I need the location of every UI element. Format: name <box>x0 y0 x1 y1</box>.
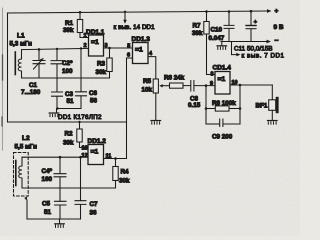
wire: tank2 top line <box>22 156 88 158</box>
svg-text:0.15: 0.15 <box>188 102 201 109</box>
svg-text:DD1.2: DD1.2 <box>88 138 107 145</box>
node: R2 tap on +V line <box>78 121 80 123</box>
resistor R1 <box>77 11 88 38</box>
potentiometer R5 <box>153 79 169 120</box>
resistor R4 <box>113 159 118 189</box>
svg-text:R4: R4 <box>121 169 130 176</box>
svg-text:+: + <box>254 19 257 25</box>
arrow to pin 7 DD1 <box>232 42 241 57</box>
svg-text:=1: =1 <box>91 39 99 46</box>
wire: DD1.2 out <box>104 158 127 160</box>
svg-text:13: 13 <box>82 145 88 151</box>
svg-text:L1: L1 <box>17 33 25 40</box>
svg-text:C5: C5 <box>42 201 51 208</box>
svg-text:R8 100k: R8 100k <box>212 100 236 107</box>
svg-text:DD1.3: DD1.3 <box>132 36 151 43</box>
svg-text:39k: 39k <box>63 140 74 147</box>
capacitor C8 <box>191 81 215 92</box>
wire: bottom ground line <box>27 218 81 220</box>
wire: +9V top rail <box>8 11 269 13</box>
svg-text:C4*: C4* <box>42 168 53 175</box>
inductor L1 core bar <box>14 52 16 75</box>
wire: tank1 top line <box>22 48 89 49</box>
svg-text:R6 24k: R6 24k <box>164 75 185 82</box>
svg-text:C10: C10 <box>211 27 223 34</box>
svg-text:R2: R2 <box>65 131 74 138</box>
svg-text:к выв. 7 DD1: к выв. 7 DD1 <box>242 52 285 59</box>
svg-text:C3: C3 <box>65 91 74 98</box>
svg-text:к выв. 14 DD1: к выв. 14 DD1 <box>114 24 156 31</box>
svg-text:39k: 39k <box>63 27 74 34</box>
ground under BF1 <box>268 121 278 125</box>
wire: +V sub-line to bottom circuit <box>8 121 127 123</box>
inductor L1 <box>18 50 21 78</box>
wire: pin 6 stub <box>127 57 133 59</box>
svg-text:R7: R7 <box>193 23 202 30</box>
ground under C10 line <box>221 42 223 46</box>
svg-text:7...180: 7...180 <box>21 89 41 96</box>
op-gate DD1.3 <box>133 43 149 64</box>
svg-text:12: 12 <box>82 153 88 159</box>
svg-text:8: 8 <box>211 72 214 78</box>
svg-text:6: 6 <box>127 53 130 59</box>
ground under C3 <box>56 109 58 113</box>
wire: tank1 bottom line <box>22 77 110 79</box>
svg-text:=1: =1 <box>218 76 226 83</box>
svg-text:R3: R3 <box>97 61 106 68</box>
svg-text:C11 50,0/15В: C11 50,0/15В <box>234 46 273 53</box>
svg-text:51: 51 <box>67 98 75 105</box>
capacitor C2 <box>51 48 63 78</box>
supply arrow 9V <box>267 9 272 13</box>
svg-text:–: – <box>275 38 279 45</box>
capacitor C11 (electrolytic) <box>246 10 256 42</box>
op-gate DD1.4 <box>215 72 230 95</box>
svg-text:L2: L2 <box>22 135 30 142</box>
capacitor C9 <box>206 119 240 127</box>
svg-text:5: 5 <box>127 43 130 49</box>
wire: mixer vertical (DD1.2 out to DD1.3 pin 6) <box>126 58 128 159</box>
wire: DD1.4 out to BF1 <box>230 84 272 86</box>
capacitor C4 <box>54 156 66 188</box>
resistor R3 <box>107 48 112 78</box>
svg-text:=1: =1 <box>135 47 143 54</box>
svg-text:BF1: BF1 <box>256 103 268 110</box>
svg-text:10k: 10k <box>142 87 153 94</box>
svg-text:30k: 30k <box>119 178 130 185</box>
svg-text:56: 56 <box>90 98 98 105</box>
svg-text:C9 200: C9 200 <box>212 134 233 141</box>
node: pin9 / feedback <box>205 84 208 87</box>
shield dashed box around L2 <box>14 153 29 197</box>
resistor R7 <box>204 10 215 74</box>
wire: C3/C6 bottom line <box>57 108 81 110</box>
svg-text:DD1 К176ЛП2: DD1 К176ЛП2 <box>58 114 102 121</box>
svg-text:C2*: C2* <box>62 60 73 67</box>
wire: tank2 bottom line <box>22 187 116 189</box>
svg-text:=1: =1 <box>91 149 99 156</box>
inductor L2 <box>19 157 22 188</box>
svg-text:C7: C7 <box>90 201 99 208</box>
svg-text:36: 36 <box>90 210 98 217</box>
capacitor C3 <box>52 78 63 109</box>
svg-text:5,5 мГн: 5,5 мГн <box>15 144 38 151</box>
wire: minus supply line <box>221 41 268 43</box>
svg-text:5,3 мГн: 5,3 мГн <box>10 41 33 48</box>
scanner edge smudges <box>2 8 4 150</box>
svg-text:R5: R5 <box>143 78 152 85</box>
svg-text:C1: C1 <box>29 82 38 89</box>
capacitor C7 <box>75 156 86 219</box>
svg-text:C6: C6 <box>89 90 98 97</box>
wire: DD1.1 out to DD1.3 in <box>104 47 133 49</box>
svg-text:1: 1 <box>84 33 87 39</box>
feedback loop R8/C9 <box>205 85 242 124</box>
wire: DD1.3 out down to R5 <box>148 57 156 79</box>
inductor L2 core bar <box>15 161 17 186</box>
wire: left rail vertical <box>7 13 9 122</box>
capacitor C5 <box>55 188 67 219</box>
op-gate DD1.2 <box>88 145 104 165</box>
svg-text:160: 160 <box>42 176 53 183</box>
shield ground wire with arrow <box>24 197 27 219</box>
speaker BF1 <box>269 85 279 120</box>
svg-text:0.047: 0.047 <box>209 35 225 42</box>
svg-text:9 В: 9 В <box>274 24 284 31</box>
capacitor C1 (variable) <box>33 48 45 78</box>
resistor R6 <box>170 83 191 88</box>
svg-text:R1: R1 <box>65 20 74 27</box>
svg-text:100: 100 <box>62 68 73 75</box>
svg-text:+: + <box>275 8 279 15</box>
svg-text:30k: 30k <box>96 69 107 76</box>
ground bottom <box>59 219 61 223</box>
svg-text:DD1.1: DD1.1 <box>86 29 105 36</box>
svg-text:CD1.4: CD1.4 <box>213 65 232 72</box>
arrow to pin 14 DD1 <box>123 11 127 24</box>
resistor R2 <box>77 122 88 148</box>
svg-text:39k: 39k <box>192 30 203 37</box>
capacitor C6 <box>76 47 87 108</box>
op-gate DD1.1 <box>89 35 104 56</box>
capacitor C10 <box>224 10 234 41</box>
svg-text:9: 9 <box>210 81 213 87</box>
svg-text:2: 2 <box>84 43 87 49</box>
ground under R5 <box>151 121 161 125</box>
svg-text:51: 51 <box>44 209 52 216</box>
